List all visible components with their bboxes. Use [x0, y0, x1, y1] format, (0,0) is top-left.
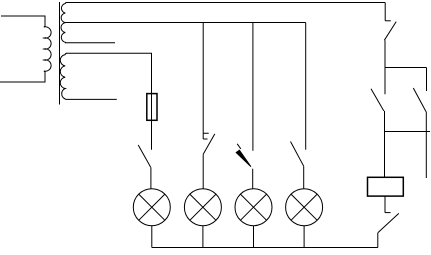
switch S1 blade [138, 145, 151, 167]
wire second rail from secondary tap 2 [65, 22, 306, 24]
wire drop rail2 to switch S2 [202, 23, 204, 140]
wire lamp E1 to bottom rail [151, 226, 153, 248]
wire stub secondary bottom tap (unconnected) [66, 98, 117, 100]
switch S2 blade [203, 134, 215, 154]
wire lamp E4 to bottom rail [303, 226, 305, 248]
wire junction horizontal upper [385, 67, 427, 69]
lamp E3 [235, 189, 272, 226]
wire top rail drop to NC contact K1 [384, 3, 386, 21]
NO contact S6 blade [371, 89, 384, 111]
wire switch S2 to lamp E2 [202, 154, 204, 189]
switch S3 blade (wedge) [236, 150, 251, 167]
wire drop rail2 to switch S3 [252, 23, 254, 151]
wire junction horizontal lower [385, 131, 430, 133]
wire from secondary tap 4 to fuse branch [66, 53, 152, 93]
transformer T1 primary winding [0, 16, 51, 82]
NO contact S7 blade [413, 88, 426, 112]
lamp E4 [286, 189, 323, 226]
transformer T1 secondary winding upper [61, 3, 66, 43]
transformer T1 secondary winding lower [60, 53, 66, 99]
NC contact S8 tick [385, 212, 391, 214]
wire switch S3 to lamp E3 [252, 169, 254, 189]
lamp E1 [133, 189, 170, 226]
relay coil K1 [368, 177, 404, 196]
NC contact S5 blade [384, 22, 396, 41]
NC contact S5 tick [385, 20, 391, 22]
wire stub secondary tap 3 (unconnected) [65, 42, 115, 44]
wire switch S4 to lamp E4 [303, 166, 305, 189]
NC contact S8 blade [378, 213, 399, 232]
wire drop rail2 end to switch S4 [305, 23, 307, 150]
wire NO contact S6 to coil [384, 111, 386, 177]
wire NO contact S7 down [425, 112, 427, 178]
wire NC contact to junction [384, 40, 386, 94]
wire right branch drop [426, 68, 428, 92]
wire NC contact S8 to bottom rail [377, 233, 379, 248]
wire coil to NC contact S8 [384, 196, 386, 213]
switch S4 blade [291, 142, 304, 167]
lamp E2 [184, 189, 221, 226]
wire through fuse down to switch S1 [151, 94, 153, 150]
wire lamp E2 to bottom rail [202, 226, 204, 248]
wire bottom rail [152, 247, 378, 249]
wire lamp E3 to bottom rail [253, 226, 255, 248]
fuse F1 [147, 94, 157, 121]
wire switch S1 to lamp E1 [150, 167, 152, 189]
transformer T1 core [59, 2, 61, 105]
wire top rail from secondary tap 1 [66, 2, 385, 4]
switch S2 contact ticks [203, 133, 209, 139]
switch S3 actuator tick [237, 144, 241, 149]
